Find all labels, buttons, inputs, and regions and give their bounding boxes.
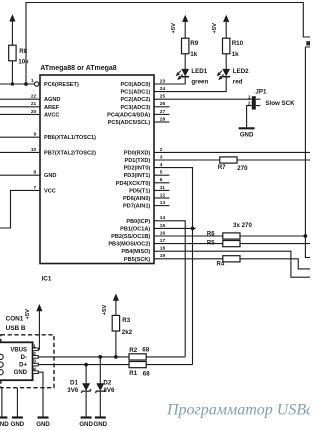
wire pin 20 AVCC	[0, 113, 40, 115]
resistor R2 68	[129, 354, 146, 360]
svg-text:14: 14	[160, 215, 166, 221]
svg-text:1k: 1k	[232, 51, 239, 58]
wire R7 to right edge	[237, 159, 310, 161]
zener diode D1 3V6	[85, 365, 87, 384]
svg-text:3V6: 3V6	[103, 387, 115, 394]
CON1 pin 2 D-	[33, 356, 39, 359]
wire pin 19 PB5 to R4	[154, 258, 223, 260]
svg-text:+5V: +5V	[212, 23, 218, 34]
LED LED2 red	[222, 69, 230, 76]
wire pin 23 PC0 to LED1	[154, 77, 185, 84]
svg-text:D1: D1	[70, 379, 78, 386]
svg-text:4: 4	[33, 366, 36, 372]
svg-text:21: 21	[31, 101, 37, 107]
IC U1 box ATmega8	[40, 75, 154, 264]
wire R6 to right vertical	[240, 235, 305, 237]
svg-text:68: 68	[142, 346, 149, 353]
svg-text:D+: D+	[19, 363, 27, 369]
svg-text:2: 2	[33, 351, 36, 357]
ground D2	[95, 416, 106, 418]
svg-text:ATmega88 or ATmega8: ATmega88 or ATmega8	[40, 65, 117, 72]
svg-text:13: 13	[160, 200, 166, 206]
wire right edge stub to connector	[305, 47, 310, 258]
svg-text:GND: GND	[36, 421, 50, 428]
wire pin 24 PC1 to LED2	[154, 77, 226, 91]
IC U1 right pin function labels	[107, 82, 150, 263]
svg-text:11: 11	[160, 185, 165, 191]
resistor R3 2k2	[112, 315, 119, 331]
power +5V arrow (top left)	[9, 14, 15, 21]
svg-text:R3: R3	[122, 317, 130, 324]
ground shield right	[12, 416, 23, 418]
wire pin 16 PB2 to R6	[154, 235, 223, 237]
svg-text:PC0(ADC0): PC0(ADC0)	[120, 82, 150, 88]
svg-text:2k2: 2k2	[122, 329, 133, 336]
wire pin 5 stub	[154, 174, 170, 176]
svg-text:PB6(XTAL1/TOSC1): PB6(XTAL1/TOSC1)	[44, 135, 96, 141]
svg-text:24: 24	[160, 86, 166, 92]
svg-text:+5V: +5V	[102, 305, 108, 316]
svg-text:26: 26	[160, 101, 166, 107]
wire pin 14 PB0 / D- riser	[154, 221, 185, 357]
svg-text:Slow SCK: Slow SCK	[265, 100, 295, 107]
svg-text:23: 23	[160, 78, 166, 84]
node D2/D- junction	[98, 355, 102, 359]
wire pin 6 stub	[154, 182, 170, 184]
resistor R9 1k	[182, 38, 189, 54]
resistor R6	[223, 233, 240, 239]
wire pin 12 stub	[154, 197, 170, 199]
svg-text:PC6(/RESET): PC6(/RESET)	[44, 82, 79, 88]
wire pin 9 PB6(XTAL1/TOSC1)	[0, 136, 40, 138]
wire R4 to right edge	[240, 259, 310, 269]
svg-text:R8: R8	[19, 48, 27, 55]
wire pin 3 PD1 to R7	[154, 159, 220, 161]
LED LED1 green	[181, 69, 189, 76]
svg-text:GND: GND	[44, 173, 56, 179]
wire CON1 shield stub right	[16, 388, 18, 418]
svg-text:VCC: VCC	[44, 188, 56, 194]
resistor R7 270	[220, 157, 237, 163]
wire pin 28 stub	[154, 121, 170, 123]
svg-text:15: 15	[160, 223, 166, 229]
wire JP1 pin 2 to GND	[247, 106, 252, 129]
svg-text:9: 9	[34, 132, 37, 138]
wire pin 25 PC2 to JP1	[154, 98, 252, 100]
svg-text:GND: GND	[11, 421, 25, 428]
wire pin 11 stub	[154, 189, 170, 191]
wire pin 17 PB3 to R5	[154, 243, 223, 245]
zener diode D2 3V6	[99, 357, 101, 384]
svg-text:1k: 1k	[190, 51, 197, 58]
wire pin 10 PB7(XTAL2/TOSC2)	[0, 151, 40, 153]
svg-text:PB7(XTAL2/TOSC2): PB7(XTAL2/TOSC2)	[44, 150, 96, 156]
svg-text:19: 19	[160, 253, 166, 259]
svg-text:D-: D-	[21, 355, 27, 361]
wire R5 to right edge	[240, 243, 310, 245]
resistor R4	[223, 256, 240, 262]
wire CON1 shield stub left	[1, 388, 3, 418]
svg-text:25: 25	[160, 94, 166, 100]
svg-text:7: 7	[34, 185, 37, 191]
wire pin 22 AGND	[0, 98, 40, 100]
svg-text:3V6: 3V6	[67, 387, 79, 394]
svg-text:20: 20	[31, 109, 37, 115]
ground JP1	[239, 127, 255, 129]
svg-text:3: 3	[160, 154, 163, 160]
svg-text:GND: GND	[14, 370, 28, 376]
svg-text:PD1(TXD): PD1(TXD)	[125, 158, 151, 164]
svg-text:+5V: +5V	[25, 309, 31, 320]
svg-text:R2: R2	[129, 347, 137, 354]
svg-text:PB4(MISO): PB4(MISO)	[121, 249, 150, 255]
svg-text:JP1: JP1	[255, 88, 267, 95]
svg-text:GND: GND	[79, 421, 93, 428]
svg-text:17: 17	[160, 238, 166, 244]
svg-text:10: 10	[31, 147, 37, 153]
ground shield left	[0, 416, 7, 418]
wire pin 4 PD2 / D+ riser	[154, 168, 193, 365]
svg-text:D2: D2	[103, 379, 111, 386]
wire RESET net top rail	[26, 3, 310, 85]
wire D- net	[38, 356, 129, 358]
svg-text:AVCC: AVCC	[44, 112, 59, 118]
svg-text:R7: R7	[218, 164, 226, 171]
wire pin 7 VCC	[0, 190, 40, 228]
wire pin 26 stub	[154, 106, 170, 108]
svg-text:R5: R5	[207, 240, 215, 246]
svg-text:PC4(ADC4/SDA): PC4(ADC4/SDA)	[107, 112, 150, 118]
power +5V arrow above R3	[113, 294, 119, 301]
wire pin 13 stub	[154, 205, 170, 207]
svg-text:red: red	[233, 78, 243, 85]
svg-text:R4: R4	[217, 261, 225, 267]
svg-text:10k: 10k	[18, 59, 29, 66]
svg-text:270: 270	[237, 165, 248, 172]
svg-text:Программатор USBasp: Программатор USBasp	[166, 402, 310, 419]
svg-text:3: 3	[33, 359, 36, 365]
svg-text:PD7(AIN1): PD7(AIN1)	[123, 204, 150, 210]
svg-text:PD0(RXD): PD0(RXD)	[124, 150, 151, 156]
wire pin 2 PD0 to right edge	[154, 151, 310, 153]
svg-text:1: 1	[248, 94, 251, 100]
wire R8 to RESET	[11, 61, 13, 84]
node R3/D- junction	[114, 355, 118, 359]
wire pin 15 PB1	[154, 227, 196, 229]
wire R3 to D- net	[115, 331, 117, 357]
svg-text:GND: GND	[0, 421, 9, 428]
ground CON1 GND	[38, 416, 49, 418]
svg-text:PD5(T1): PD5(T1)	[129, 188, 150, 194]
svg-text:PD3(INT1): PD3(INT1)	[124, 173, 151, 179]
svg-text:R1: R1	[129, 370, 137, 377]
svg-text:LED2: LED2	[233, 68, 249, 75]
svg-text:28: 28	[160, 116, 166, 122]
svg-text:27: 27	[160, 109, 166, 115]
svg-text:R9: R9	[190, 40, 198, 47]
svg-text:PB5(SCK): PB5(SCK)	[124, 257, 151, 263]
wire R10 to LED2	[225, 54, 227, 69]
svg-text:CON1: CON1	[6, 316, 24, 323]
node R8/RESET junction	[11, 82, 14, 85]
CON1 pin 1 VBUS	[33, 348, 39, 351]
wire pin 27 stub	[154, 113, 170, 115]
svg-text:IC1: IC1	[42, 276, 52, 283]
svg-text:22: 22	[31, 94, 37, 100]
node R6 junction	[304, 234, 308, 238]
svg-text:PD4(XCK/T0): PD4(XCK/T0)	[116, 181, 151, 187]
power +5V arrow above R10	[223, 15, 229, 22]
wire R1 to PB1 riser	[146, 364, 192, 366]
wire pin 1 PC6/RESET with inversion bubble	[0, 83, 34, 85]
wire R2 to PB0 riser	[146, 356, 185, 358]
svg-text:PB0(ICP): PB0(ICP)	[126, 219, 150, 225]
svg-text:12: 12	[160, 192, 166, 198]
wire pin 21 AREF	[0, 106, 40, 108]
svg-text:PB3(MOSI/OC2): PB3(MOSI/OC2)	[108, 242, 150, 248]
svg-text:1: 1	[31, 78, 34, 84]
wire R9 to LED1	[184, 54, 186, 69]
node D1/D+ junction	[84, 363, 88, 367]
svg-text:PB1(OC1A): PB1(OC1A)	[120, 226, 150, 232]
svg-text:68: 68	[143, 371, 150, 378]
svg-text:green: green	[191, 78, 208, 85]
power +5V arrow above CON1	[36, 304, 42, 311]
resistor R10 1k	[223, 38, 230, 54]
node RESET junction	[24, 82, 28, 86]
svg-text:R6: R6	[207, 231, 215, 237]
svg-text:6: 6	[160, 177, 163, 183]
svg-text:USB B: USB B	[6, 325, 26, 332]
svg-text:GND: GND	[240, 132, 254, 139]
svg-text:PD6(AIN0): PD6(AIN0)	[123, 196, 150, 202]
svg-text:PB2(SS/OC1B): PB2(SS/OC1B)	[111, 234, 150, 240]
CON1 pin 4 GND	[33, 371, 39, 374]
node PB1/PD2 junction	[191, 227, 195, 231]
svg-text:2: 2	[160, 147, 163, 153]
connector CON1 body	[0, 342, 33, 380]
power +5V arrow above R9	[182, 15, 188, 22]
svg-text:1: 1	[33, 343, 36, 349]
svg-text:AREF: AREF	[44, 105, 60, 111]
svg-text:PC2(ADC2): PC2(ADC2)	[120, 97, 150, 103]
svg-text:GND: GND	[94, 421, 108, 428]
resistor R8	[9, 45, 16, 61]
svg-text:18: 18	[160, 246, 166, 252]
svg-text:PC1(ADC1): PC1(ADC1)	[120, 90, 150, 96]
svg-text:8: 8	[34, 170, 37, 176]
wire pin 8 GND	[0, 174, 40, 176]
svg-text:5: 5	[160, 170, 163, 176]
svg-text:R10: R10	[232, 40, 244, 47]
resistor R5	[223, 241, 240, 247]
connector CON1 USB B dashed outline	[1, 335, 54, 388]
svg-text:PC3(ADC3): PC3(ADC3)	[120, 105, 150, 111]
svg-text:VBUS: VBUS	[10, 347, 27, 353]
wire VBUS to +5V	[38, 311, 39, 349]
wire D+ net	[38, 364, 129, 366]
svg-text:PC5(ADC5/SCL): PC5(ADC5/SCL)	[108, 120, 151, 126]
connector pad remnant at right edge	[306, 41, 310, 45]
svg-text:LED1: LED1	[191, 68, 207, 75]
CON1 pin 3 D+	[33, 363, 39, 366]
resistor R1 68	[129, 362, 146, 368]
wire pin 18 PB4 to right edge	[154, 251, 310, 277]
svg-text:PD2(INT0): PD2(INT0)	[124, 166, 151, 172]
svg-text:+5V: +5V	[171, 23, 177, 34]
svg-text:AGND: AGND	[44, 97, 60, 103]
jumper JP1 Slow SCK	[252, 96, 256, 109]
wire CON1 GND pin to ground	[38, 372, 43, 417]
svg-text:3x 270: 3x 270	[233, 222, 252, 229]
ground D1	[81, 416, 92, 418]
svg-text:16: 16	[160, 230, 166, 236]
svg-text:4: 4	[160, 162, 163, 168]
